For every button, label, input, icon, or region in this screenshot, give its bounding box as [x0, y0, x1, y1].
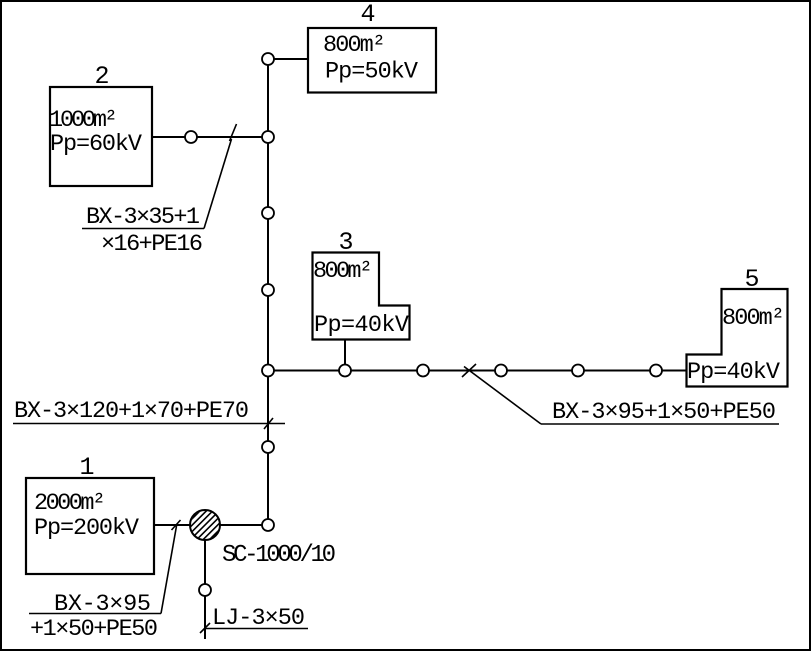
svg-text:800m²: 800m²: [313, 258, 373, 285]
svg-text:4: 4: [360, 0, 375, 29]
svg-text:Pp=40kV: Pp=40kV: [314, 312, 409, 339]
svg-text:SC-1000/10: SC-1000/10: [222, 542, 336, 569]
svg-text:1: 1: [79, 453, 94, 482]
svg-text:800m²: 800m²: [323, 32, 386, 59]
svg-text:BX-3×35+1: BX-3×35+1: [86, 204, 200, 231]
svg-text:Pp=50kV: Pp=50kV: [325, 59, 418, 86]
svg-text:LJ-3×50: LJ-3×50: [212, 605, 305, 632]
svg-text:×16+PE16: ×16+PE16: [101, 231, 203, 258]
svg-text:Pp=40kV: Pp=40kV: [687, 359, 780, 386]
svg-text:BX-3×120+1×70+PE70: BX-3×120+1×70+PE70: [14, 398, 249, 425]
svg-text:BX-3×95+1×50+PE50: BX-3×95+1×50+PE50: [552, 399, 776, 426]
svg-text:3: 3: [338, 228, 353, 257]
svg-text:800m²: 800m²: [722, 305, 785, 332]
svg-text:2: 2: [94, 62, 109, 91]
svg-text:2000m²: 2000m²: [34, 490, 106, 517]
svg-text:+1×50+PE50: +1×50+PE50: [30, 616, 158, 643]
svg-text:5: 5: [744, 265, 759, 294]
svg-text:Pp=60kV: Pp=60kV: [50, 131, 142, 158]
svg-text:1000m²: 1000m²: [49, 107, 118, 134]
svg-text:BX-3×95: BX-3×95: [54, 591, 151, 618]
svg-text:Pp=200kV: Pp=200kV: [34, 515, 139, 542]
